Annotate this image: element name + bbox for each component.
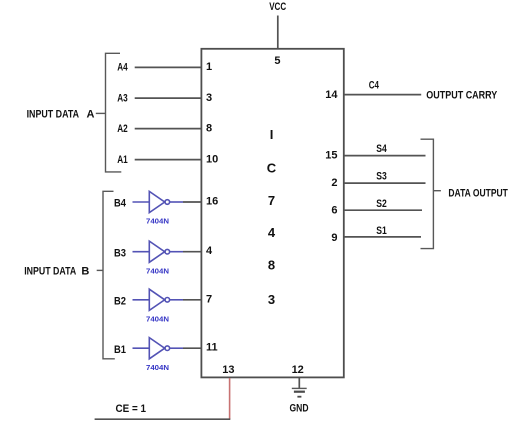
svg-text:9: 9 [331, 232, 337, 244]
wire inverter U2C output [170, 299, 183, 301]
svg-text:3: 3 [268, 292, 275, 307]
svg-text:S3: S3 [376, 171, 387, 183]
svg-text:A: A [87, 108, 95, 120]
svg-text:1: 1 [206, 61, 212, 73]
svg-text:A1: A1 [117, 154, 128, 166]
svg-text:A3: A3 [117, 92, 128, 104]
wire bracket to data output label [433, 190, 441, 192]
wire A3 to pin 3 [135, 97, 202, 99]
svg-text:INPUT DATA: INPUT DATA [24, 265, 76, 277]
svg-text:CE = 1: CE = 1 [116, 403, 147, 415]
wire to pin 16 [183, 201, 202, 203]
wire pin 15 to S4 [344, 155, 426, 157]
svg-text:4: 4 [206, 245, 213, 257]
svg-text:7404N: 7404N [146, 363, 169, 372]
svg-text:S1: S1 [376, 225, 387, 237]
svg-text:S4: S4 [376, 143, 387, 155]
svg-text:B: B [81, 265, 89, 277]
wire pin 2 to S3 [344, 182, 426, 184]
wire inverter U2B output [170, 251, 183, 253]
wire pin 6 to S2 [344, 209, 422, 211]
svg-text:3: 3 [206, 92, 212, 104]
svg-text:13: 13 [222, 364, 234, 376]
svg-text:4: 4 [268, 225, 276, 240]
wire inverter U2A output [170, 201, 183, 203]
svg-text:VCC: VCC [269, 1, 286, 13]
svg-text:16: 16 [206, 196, 218, 208]
wire inverter U2D output [170, 347, 183, 349]
wire B3 to inverter input [133, 251, 150, 253]
IC U1 7483 body [201, 49, 343, 378]
svg-text:2: 2 [331, 177, 337, 189]
wire B label to bracket [97, 269, 103, 271]
svg-text:5: 5 [274, 55, 280, 67]
bracket input data A [106, 53, 122, 172]
svg-text:10: 10 [206, 154, 218, 166]
svg-text:B4: B4 [114, 198, 127, 210]
svg-text:11: 11 [206, 342, 218, 354]
wire A2 to pin 8 [135, 128, 202, 130]
ground [292, 387, 307, 389]
svg-text:INPUT DATA: INPUT DATA [27, 108, 79, 120]
svg-text:I: I [270, 127, 274, 142]
svg-text:7: 7 [268, 193, 275, 208]
wire A label to bracket [96, 112, 106, 114]
svg-text:B2: B2 [114, 296, 126, 308]
wire pin 14 to output carry [344, 94, 421, 96]
wire pin 9 to S1 [344, 236, 421, 238]
inverter U2C 7404 [149, 289, 164, 310]
wire VCC to pin 5 [277, 16, 279, 49]
svg-text:14: 14 [325, 89, 338, 101]
bracket data output [421, 139, 434, 248]
svg-text:12: 12 [292, 364, 304, 376]
svg-text:OUTPUT CARRY: OUTPUT CARRY [426, 90, 498, 102]
wire pin 13 to CE net (red) [229, 378, 231, 419]
wire A4 to pin 1 [135, 66, 202, 68]
wire B1 to inverter input [133, 347, 150, 349]
inverter U2B 7404 [149, 241, 164, 262]
svg-text:7404N: 7404N [146, 315, 169, 324]
svg-text:7404N: 7404N [146, 217, 169, 226]
svg-text:8: 8 [268, 257, 275, 272]
bracket input data B [103, 191, 115, 358]
wire CE horizontal [95, 418, 231, 420]
svg-text:DATA OUTPUT: DATA OUTPUT [448, 188, 508, 200]
svg-text:A4: A4 [117, 61, 128, 73]
svg-text:6: 6 [331, 205, 337, 217]
svg-text:8: 8 [206, 123, 212, 135]
wire B4 to inverter input [133, 201, 150, 203]
svg-text:C4: C4 [369, 80, 380, 92]
svg-text:B3: B3 [114, 247, 126, 259]
wire to pin 11 [183, 347, 202, 349]
wire to pin 4 [183, 251, 202, 253]
svg-text:A2: A2 [117, 123, 128, 135]
svg-text:C: C [267, 161, 277, 176]
wire A1 to pin 10 [135, 159, 202, 161]
inverter U2D 7404 [149, 338, 164, 359]
svg-text:S2: S2 [376, 198, 387, 210]
wire pin 12 to ground [298, 378, 300, 388]
svg-text:7404N: 7404N [146, 266, 169, 275]
wire to pin 7 [183, 299, 202, 301]
wire B2 to inverter input [133, 299, 150, 301]
svg-text:7: 7 [206, 293, 212, 305]
svg-text:15: 15 [325, 150, 337, 162]
svg-text:GND: GND [290, 403, 309, 415]
svg-text:B1: B1 [114, 344, 126, 356]
inverter U2A 7404 [149, 191, 164, 212]
